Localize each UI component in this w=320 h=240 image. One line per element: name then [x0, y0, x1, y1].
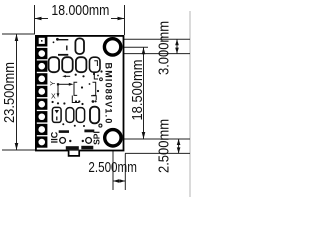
- svg-text:IIC: IIC: [49, 131, 59, 143]
- svg-text:2.500mm: 2.500mm: [88, 159, 136, 176]
- svg-text:Y: Y: [50, 81, 57, 86]
- svg-text:SPI: SPI: [92, 131, 102, 145]
- svg-text:2.500mm: 2.500mm: [156, 119, 173, 173]
- svg-text:X: X: [51, 94, 56, 101]
- svg-text:23.500mm: 23.500mm: [1, 62, 18, 123]
- svg-text:BMI088V1.0: BMI088V1.0: [103, 63, 113, 125]
- svg-text:18.500mm: 18.500mm: [129, 60, 146, 121]
- svg-text:18.000mm: 18.000mm: [51, 2, 109, 19]
- svg-text:3.000mm: 3.000mm: [156, 21, 173, 75]
